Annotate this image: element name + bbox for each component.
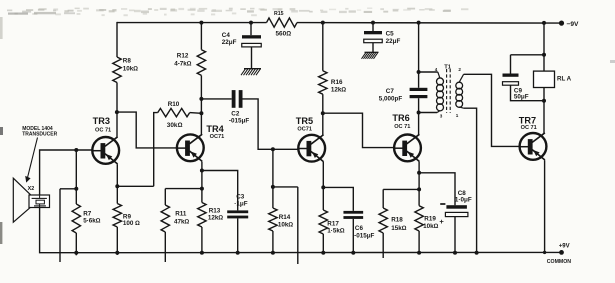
node: T1 pin1 rail junction bbox=[475, 251, 479, 255]
svg-text:OC 71: OC 71 bbox=[394, 124, 410, 130]
transducer X2 body bbox=[28, 186, 50, 207]
svg-text:OC71: OC71 bbox=[297, 127, 312, 133]
svg-text:C6: C6 bbox=[355, 225, 364, 232]
transistor TR4 bbox=[177, 124, 225, 161]
svg-text:TR6: TR6 bbox=[392, 113, 409, 123]
wire: R14 to rail bbox=[272, 231, 274, 253]
svg-text:4-7kΩ: 4-7kΩ bbox=[174, 60, 192, 67]
wire: C6 to rail bbox=[352, 219, 354, 253]
svg-text:−9V: −9V bbox=[567, 21, 580, 28]
svg-text:R19: R19 bbox=[424, 216, 436, 223]
svg-text:-015μF: -015μF bbox=[229, 118, 249, 125]
node: T1 primary bottom junction bbox=[417, 111, 421, 115]
ground below C5 bbox=[362, 52, 379, 59]
resistor R18 bbox=[379, 208, 407, 233]
svg-text:TRANSDUCER: TRANSDUCER bbox=[22, 131, 57, 137]
svg-text:4: 4 bbox=[435, 67, 438, 72]
node: R12 rail junction bbox=[199, 21, 203, 25]
capacitor C2 bbox=[229, 90, 249, 125]
transistor TR7 bbox=[519, 115, 547, 160]
print-through smudges (decorative) bbox=[0, 8, 468, 40]
ground below C4 bbox=[241, 69, 261, 76]
resistor R13 bbox=[198, 203, 224, 228]
wire: rail corner to R8 bbox=[116, 22, 118, 57]
svg-text:R18: R18 bbox=[391, 217, 403, 224]
node: C3 rail junction bbox=[236, 251, 240, 255]
node: R14 mid junction bbox=[271, 185, 275, 189]
wire: R14 junction to right stub bbox=[273, 186, 298, 188]
transducer X2 cone bbox=[13, 178, 30, 222]
wire: rail to relay bbox=[543, 23, 545, 71]
node: R14 rail junction bbox=[271, 251, 275, 255]
node: TR4 emitter / R11 junction bbox=[200, 187, 204, 191]
node: TR6 emitter / R18 junction bbox=[417, 187, 421, 191]
wire: R9 to rail bbox=[116, 227, 118, 255]
node: -9V terminal bbox=[559, 21, 579, 28]
node: T1 primary top junction bbox=[417, 70, 421, 74]
svg-text:-015μF: -015μF bbox=[354, 232, 374, 239]
scan marks (decorative) bbox=[0, 60, 615, 244]
node: TR7 collector / C9 junction bbox=[542, 99, 546, 103]
wire: X2 top to TR3 base bbox=[40, 150, 93, 195]
wire: TR5 emitter to C6 bbox=[323, 187, 353, 211]
node: TR5 collector junction bbox=[321, 111, 325, 115]
svg-text:R14: R14 bbox=[279, 214, 291, 221]
wire: rail to R16 bbox=[322, 23, 324, 71]
svg-text:TR7: TR7 bbox=[519, 115, 536, 125]
svg-text:TR5: TR5 bbox=[296, 116, 313, 126]
node: C8 rail junction bbox=[453, 251, 457, 255]
svg-text:50μF: 50μF bbox=[514, 94, 529, 101]
svg-text:TR4: TR4 bbox=[206, 124, 224, 134]
resistor R15 bbox=[267, 11, 298, 38]
svg-text:1: 1 bbox=[456, 113, 459, 118]
wire: R18 bottom crossing rail bbox=[382, 233, 384, 258]
svg-text:100 Ω: 100 Ω bbox=[123, 220, 140, 227]
resistor R11 bbox=[161, 205, 189, 232]
wire: R13 to rail bbox=[201, 227, 203, 253]
resistor R19 bbox=[415, 206, 439, 231]
svg-text:C7: C7 bbox=[386, 88, 395, 95]
svg-text:C4: C4 bbox=[222, 32, 231, 39]
svg-text:OC71: OC71 bbox=[210, 134, 225, 140]
wire: emitter junction to R18 bbox=[383, 188, 419, 190]
svg-text:10kΩ: 10kΩ bbox=[123, 66, 139, 73]
resistor R8 bbox=[113, 57, 139, 83]
svg-text:C2: C2 bbox=[231, 111, 240, 118]
svg-text:2: 2 bbox=[458, 67, 461, 72]
svg-text:1·5kΩ: 1·5kΩ bbox=[327, 228, 345, 235]
resistor R10 bbox=[158, 101, 190, 129]
svg-text:5·6kΩ: 5·6kΩ bbox=[83, 218, 101, 225]
wire: base junction down to R7 bbox=[75, 150, 77, 204]
capacitor C5 bbox=[364, 31, 401, 45]
wire: TR4 emitter down bbox=[201, 162, 203, 203]
svg-text:C3: C3 bbox=[236, 194, 245, 201]
svg-text:R13: R13 bbox=[209, 207, 221, 214]
wire: T1 pin1 to bottom rail bbox=[464, 108, 477, 253]
node: R7 top junction bbox=[74, 187, 78, 191]
wire: C5 to ground bbox=[372, 43, 374, 53]
svg-text:R12: R12 bbox=[177, 53, 189, 60]
svg-text:R10: R10 bbox=[168, 101, 180, 108]
wire: C9 top link bbox=[511, 54, 545, 56]
transistor TR6 bbox=[392, 113, 421, 161]
svg-text:RL A: RL A bbox=[557, 76, 572, 83]
svg-text:10kΩ: 10kΩ bbox=[423, 223, 439, 230]
transistor TR5 bbox=[296, 116, 325, 162]
svg-text:10kΩ: 10kΩ bbox=[278, 221, 294, 228]
node: R10 right junction bbox=[199, 111, 203, 115]
node: TR4 emitter / C3 junction bbox=[200, 169, 204, 173]
transformer T1 bbox=[419, 65, 464, 119]
node: C5 rail junction bbox=[371, 21, 375, 25]
wire: common bottom rail bbox=[40, 208, 562, 253]
resistor R9 bbox=[113, 204, 140, 228]
wire: R12 to TR4 collector node bbox=[200, 75, 202, 134]
wire: rail to R12 bbox=[200, 23, 202, 50]
wire: C9 bottom lead bbox=[511, 85, 545, 101]
node: R16 rail junction bbox=[321, 21, 325, 25]
node: R7 rail junction bbox=[74, 251, 78, 255]
node: TR4 collector / C2 junction bbox=[199, 97, 203, 101]
svg-text:C5: C5 bbox=[386, 31, 395, 38]
wire: R17 to rail bbox=[322, 234, 324, 253]
wire: R11 top lead bbox=[164, 189, 166, 205]
svg-text:22μF: 22μF bbox=[222, 39, 237, 46]
capacitor C7 bbox=[379, 88, 428, 103]
wire: T1 pin2 to TR7 base bbox=[464, 74, 520, 146]
node: TR3 emitter junction bbox=[115, 184, 119, 188]
wire: R14 top lead bbox=[272, 149, 274, 208]
svg-text:5,000pF: 5,000pF bbox=[379, 96, 403, 103]
wire: TR7 emitter to rail bbox=[544, 160, 546, 252]
node: TR7 emitter rail junction bbox=[543, 251, 546, 254]
wire: TR3 collector to TR4 base bbox=[117, 112, 177, 148]
node: TR5 base / R14 junction bbox=[271, 147, 275, 151]
svg-text:X2: X2 bbox=[28, 186, 35, 192]
capacitor C8 bbox=[439, 190, 471, 226]
wire: C8 to rail bbox=[454, 217, 456, 253]
wire: R10 left lead down to TR3 emitter node bbox=[154, 113, 158, 187]
wire: TR4 emitter to C3 bbox=[202, 171, 238, 211]
svg-text:30kΩ: 30kΩ bbox=[167, 122, 183, 129]
svg-text:3: 3 bbox=[440, 113, 443, 118]
wire: rail to C7 bbox=[418, 23, 420, 88]
wire: C7 to TR6 collector bbox=[418, 98, 420, 134]
svg-text:1·0μF: 1·0μF bbox=[455, 197, 472, 204]
svg-text:+9V: +9V bbox=[559, 244, 570, 250]
resistor R16 bbox=[319, 71, 347, 94]
resistor R7 bbox=[72, 204, 101, 233]
node: R17 rail junction bbox=[321, 251, 325, 255]
wire: C4 to ground bbox=[251, 47, 253, 69]
wire: TR4 collector to C2 bbox=[201, 98, 231, 100]
node: C6 rail junction bbox=[351, 251, 355, 255]
wire: C2 to TR5 base bbox=[243, 99, 299, 149]
node: T1 rail junction bbox=[417, 21, 421, 25]
node: TR3 collector junction bbox=[115, 110, 119, 114]
svg-text:+: + bbox=[439, 217, 444, 226]
wire: TR3 emitter down bbox=[116, 164, 118, 203]
wire: TR6 emitter down bbox=[418, 162, 420, 206]
svg-text:15kΩ: 15kΩ bbox=[391, 225, 407, 232]
wire: left stub crossing bottom rail bbox=[59, 189, 61, 262]
node: TR6 emitter / C8 junction bbox=[417, 171, 421, 175]
node: R13 rail junction bbox=[200, 251, 204, 255]
wire: R19 to rail bbox=[418, 231, 420, 253]
svg-text:22μF: 22μF bbox=[386, 38, 401, 45]
label: MODEL 1404 TRANSDUCER bbox=[22, 126, 57, 138]
node: TR5 emitter junction bbox=[321, 185, 325, 189]
wire: TR6 emitter to C8 bbox=[419, 173, 455, 205]
wire: R8 to TR3 collector bbox=[116, 83, 118, 138]
resistor R12 bbox=[174, 50, 205, 76]
svg-text:R8: R8 bbox=[123, 58, 132, 65]
svg-text:R15: R15 bbox=[274, 11, 284, 17]
svg-text:·1μF: ·1μF bbox=[234, 201, 247, 208]
node: C9 top junction bbox=[542, 53, 546, 57]
svg-text:560Ω: 560Ω bbox=[276, 31, 292, 38]
wire: C3 to rail bbox=[237, 218, 239, 252]
capacitor C4 bbox=[222, 32, 261, 47]
svg-text:12kΩ: 12kΩ bbox=[331, 87, 347, 94]
wire: R7 to rail bbox=[75, 233, 77, 255]
wire: -9V top supply rail bbox=[117, 22, 562, 25]
wire: relay to TR7 collector bbox=[543, 88, 545, 134]
wire: TR5 collector to TR6 base bbox=[323, 113, 395, 147]
node: TR3 base junction bbox=[74, 148, 78, 152]
wire: rail to C5 bbox=[372, 23, 374, 31]
svg-text:47kΩ: 47kΩ bbox=[174, 219, 190, 226]
wire: right stub crossing bottom rail bbox=[297, 187, 299, 264]
wire: rail to C4 bbox=[250, 23, 252, 36]
resistor R14 bbox=[269, 208, 294, 231]
svg-text:OC 71: OC 71 bbox=[521, 125, 537, 131]
node: +9V terminal bbox=[547, 244, 571, 266]
wire: C9 top lead bbox=[510, 55, 512, 74]
wire: R16 to TR5 collector bbox=[322, 94, 324, 135]
capacitor C3 bbox=[227, 194, 248, 219]
capacitor C9 bbox=[503, 74, 529, 101]
svg-text:COMMON: COMMON bbox=[547, 259, 571, 265]
wire: TR3 emitter to R10 branch bbox=[117, 185, 153, 187]
arrow to X2 bbox=[25, 138, 37, 183]
capacitor C6 bbox=[343, 211, 374, 239]
wire: R11 bottom crossing rail bbox=[164, 232, 166, 262]
wire: emitter junction to R11 bbox=[165, 188, 202, 190]
svg-text:TR3: TR3 bbox=[93, 116, 110, 126]
transistor TR3 bbox=[92, 116, 119, 164]
svg-text:T1: T1 bbox=[444, 65, 452, 71]
wire: TR5 emitter down bbox=[322, 162, 324, 210]
svg-text:R17: R17 bbox=[327, 220, 339, 227]
svg-text:OC 71: OC 71 bbox=[95, 128, 111, 134]
relay RL A bbox=[534, 71, 572, 87]
wire: R10 right lead bbox=[190, 112, 202, 115]
node: R19 rail junction bbox=[417, 251, 421, 255]
svg-text:R16: R16 bbox=[331, 79, 343, 86]
node: relay rail junction bbox=[542, 21, 546, 25]
node: C4 rail junction bbox=[249, 21, 253, 25]
node: R9 rail junction bbox=[115, 251, 119, 255]
resistor R17 bbox=[319, 210, 345, 235]
svg-text:R11: R11 bbox=[175, 210, 187, 217]
svg-text:12kΩ: 12kΩ bbox=[208, 215, 224, 222]
wire: R7 top to left stub bbox=[60, 188, 76, 190]
wire: R18 top lead bbox=[382, 189, 384, 208]
